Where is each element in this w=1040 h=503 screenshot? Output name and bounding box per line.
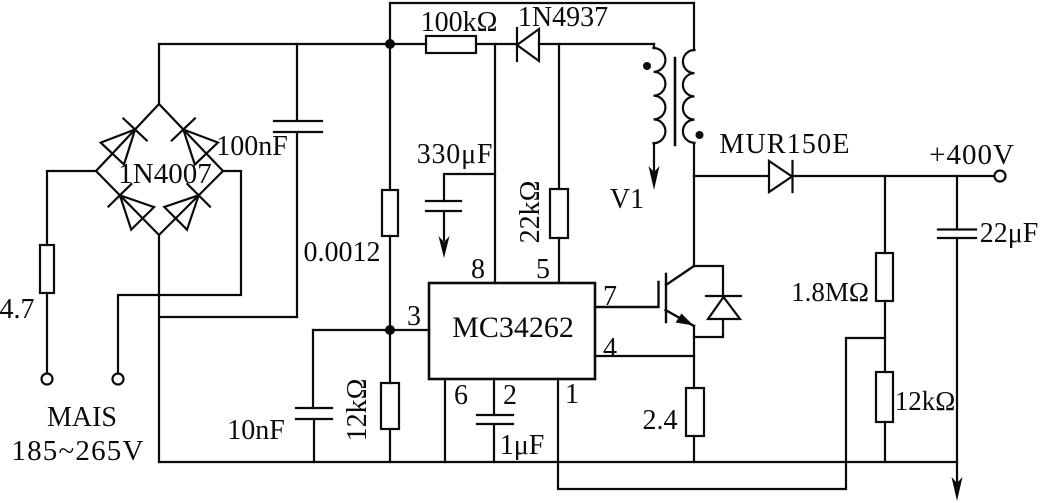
transistor V1 IGBT	[595, 266, 694, 326]
svg-text:4.7: 4.7	[0, 294, 35, 325]
wire pin4 to emitter	[595, 355, 694, 357]
wire 12kΩ to ground rail	[389, 429, 391, 462]
arrow IGBT emitter	[676, 314, 694, 326]
resistor 12kΩ left	[381, 383, 399, 429]
wire ground rail	[159, 461, 957, 463]
terminal mains L	[42, 374, 53, 385]
svg-text:MAIS: MAIS	[47, 402, 117, 433]
op-amp U1 MC34262 box	[429, 283, 595, 379]
capacitor 1µF	[477, 415, 513, 462]
svg-text:330μF: 330μF	[417, 139, 494, 170]
wire right winding bottom lead	[693, 143, 695, 176]
resistor 1.8MΩ	[876, 253, 893, 301]
resistor 100kΩ	[426, 36, 476, 53]
svg-text:12kΩ: 12kΩ	[895, 386, 956, 416]
svg-text:8: 8	[471, 254, 485, 285]
svg-text:12kΩ: 12kΩ	[342, 379, 373, 442]
wire node down to 0.0012	[389, 44, 391, 190]
svg-text:MUR150E: MUR150E	[719, 129, 850, 160]
wire left winding bottom arrow shaft	[653, 143, 655, 172]
resistor 2.4	[686, 388, 704, 436]
node rectified DC junction dot	[385, 39, 395, 49]
wire 330µF top connection	[444, 174, 495, 201]
bridge diode D3 bottom-left	[109, 184, 155, 230]
svg-text:0.0012: 0.0012	[304, 237, 381, 268]
transformer T1 left winding	[654, 48, 666, 143]
svg-text:1N4937: 1N4937	[518, 2, 608, 33]
svg-text:5: 5	[536, 254, 550, 285]
wire fuse to terminal	[46, 293, 48, 373]
wire IGBT collector	[693, 176, 695, 266]
svg-text:3: 3	[407, 301, 421, 332]
wire 22µF branch	[956, 176, 958, 229]
wire rail drop to node	[389, 3, 391, 44]
bridge diode D2 top-right	[172, 118, 218, 164]
transformer core	[674, 58, 677, 145]
wire rectified DC line y=44	[159, 43, 654, 45]
diode 1N4937	[517, 28, 539, 61]
resistor 12kΩ right	[876, 372, 893, 422]
capacitor 330µF	[426, 201, 461, 240]
terminal mains N	[113, 374, 124, 385]
svg-text:+400V: +400V	[929, 139, 1015, 171]
svg-text:1N4007: 1N4007	[118, 158, 211, 190]
svg-text:MC34262: MC34262	[452, 311, 574, 344]
terminal +400V	[995, 171, 1006, 182]
svg-text:V1: V1	[610, 184, 644, 215]
svg-text:7: 7	[603, 281, 617, 312]
wire ground stub	[956, 462, 958, 482]
diode clamp across IGBT	[694, 266, 741, 337]
wire 10nF branch	[312, 330, 314, 408]
wire output line to MUR150E	[694, 175, 769, 177]
wire bridge left vertex to fuse	[47, 171, 96, 245]
resistor 0.0012	[382, 190, 398, 236]
svg-text:2: 2	[503, 380, 517, 411]
wire 0.0012 to pin3 node	[389, 236, 391, 383]
svg-text:22μF: 22μF	[980, 218, 1039, 249]
transformer polarity dot left	[643, 62, 651, 70]
svg-text:100kΩ: 100kΩ	[421, 7, 498, 38]
arrow left winding down	[649, 166, 660, 190]
wire pin2 to 1µF	[493, 379, 495, 415]
wire divider middle	[884, 301, 886, 372]
wire 12kΩ to ground rail	[884, 422, 886, 462]
wire 22kΩ top	[558, 44, 560, 189]
svg-text:1: 1	[565, 379, 579, 410]
transformer polarity dot right	[696, 131, 704, 139]
capacitor 22µF	[938, 230, 976, 463]
transformer T1 primary lead	[653, 44, 655, 48]
wire pin6 to ground	[444, 379, 446, 462]
svg-text:100nF: 100nF	[216, 131, 288, 162]
svg-text:1μF: 1μF	[500, 430, 545, 461]
wire MUR150E to output terminal	[793, 175, 995, 177]
transformer T1 right winding lead from rail	[693, 3, 695, 50]
capacitor 10nF	[296, 408, 332, 462]
wire 2.4 to ground rail	[693, 436, 695, 462]
svg-text:4: 4	[603, 333, 617, 364]
wire bridge bottom vertex to ground rail	[158, 235, 160, 462]
node pin3 junction dot	[385, 325, 395, 335]
arrow 330µF polarity	[439, 236, 450, 258]
wire pin3 node to IC and left to 10nF	[313, 329, 429, 331]
svg-text:6: 6	[454, 380, 468, 411]
resistor 22kΩ	[550, 189, 568, 238]
arrow ground down	[952, 477, 963, 501]
wire VCC line pin8	[494, 44, 496, 283]
capacitor 100nF	[274, 44, 322, 317]
resistor 4.7	[40, 245, 54, 293]
bridge diode D4 bottom-right	[164, 184, 210, 230]
wire IGBT emitter down	[693, 326, 695, 388]
wire pin1 feedback run	[558, 338, 885, 489]
wire 22kΩ to pin5	[558, 238, 560, 283]
wire top rail	[390, 2, 694, 4]
wire bridge right vertex to terminal	[118, 171, 241, 373]
svg-text:2.4: 2.4	[643, 405, 678, 436]
svg-text:1.8MΩ: 1.8MΩ	[791, 277, 869, 307]
transformer T1 right winding	[683, 50, 695, 143]
wire 100nF bottom to bridge-bottom line	[161, 316, 297, 318]
svg-text:10nF: 10nF	[227, 415, 285, 446]
wire bridge top vertex up	[158, 44, 160, 104]
svg-text:22kΩ: 22kΩ	[515, 181, 546, 244]
wire divider top	[884, 176, 886, 253]
diode MUR150E	[769, 161, 793, 192]
svg-text:185~265V: 185~265V	[11, 435, 144, 467]
bridge rectifier diamond	[96, 104, 223, 235]
bridge diode D1 top-left	[101, 119, 147, 165]
